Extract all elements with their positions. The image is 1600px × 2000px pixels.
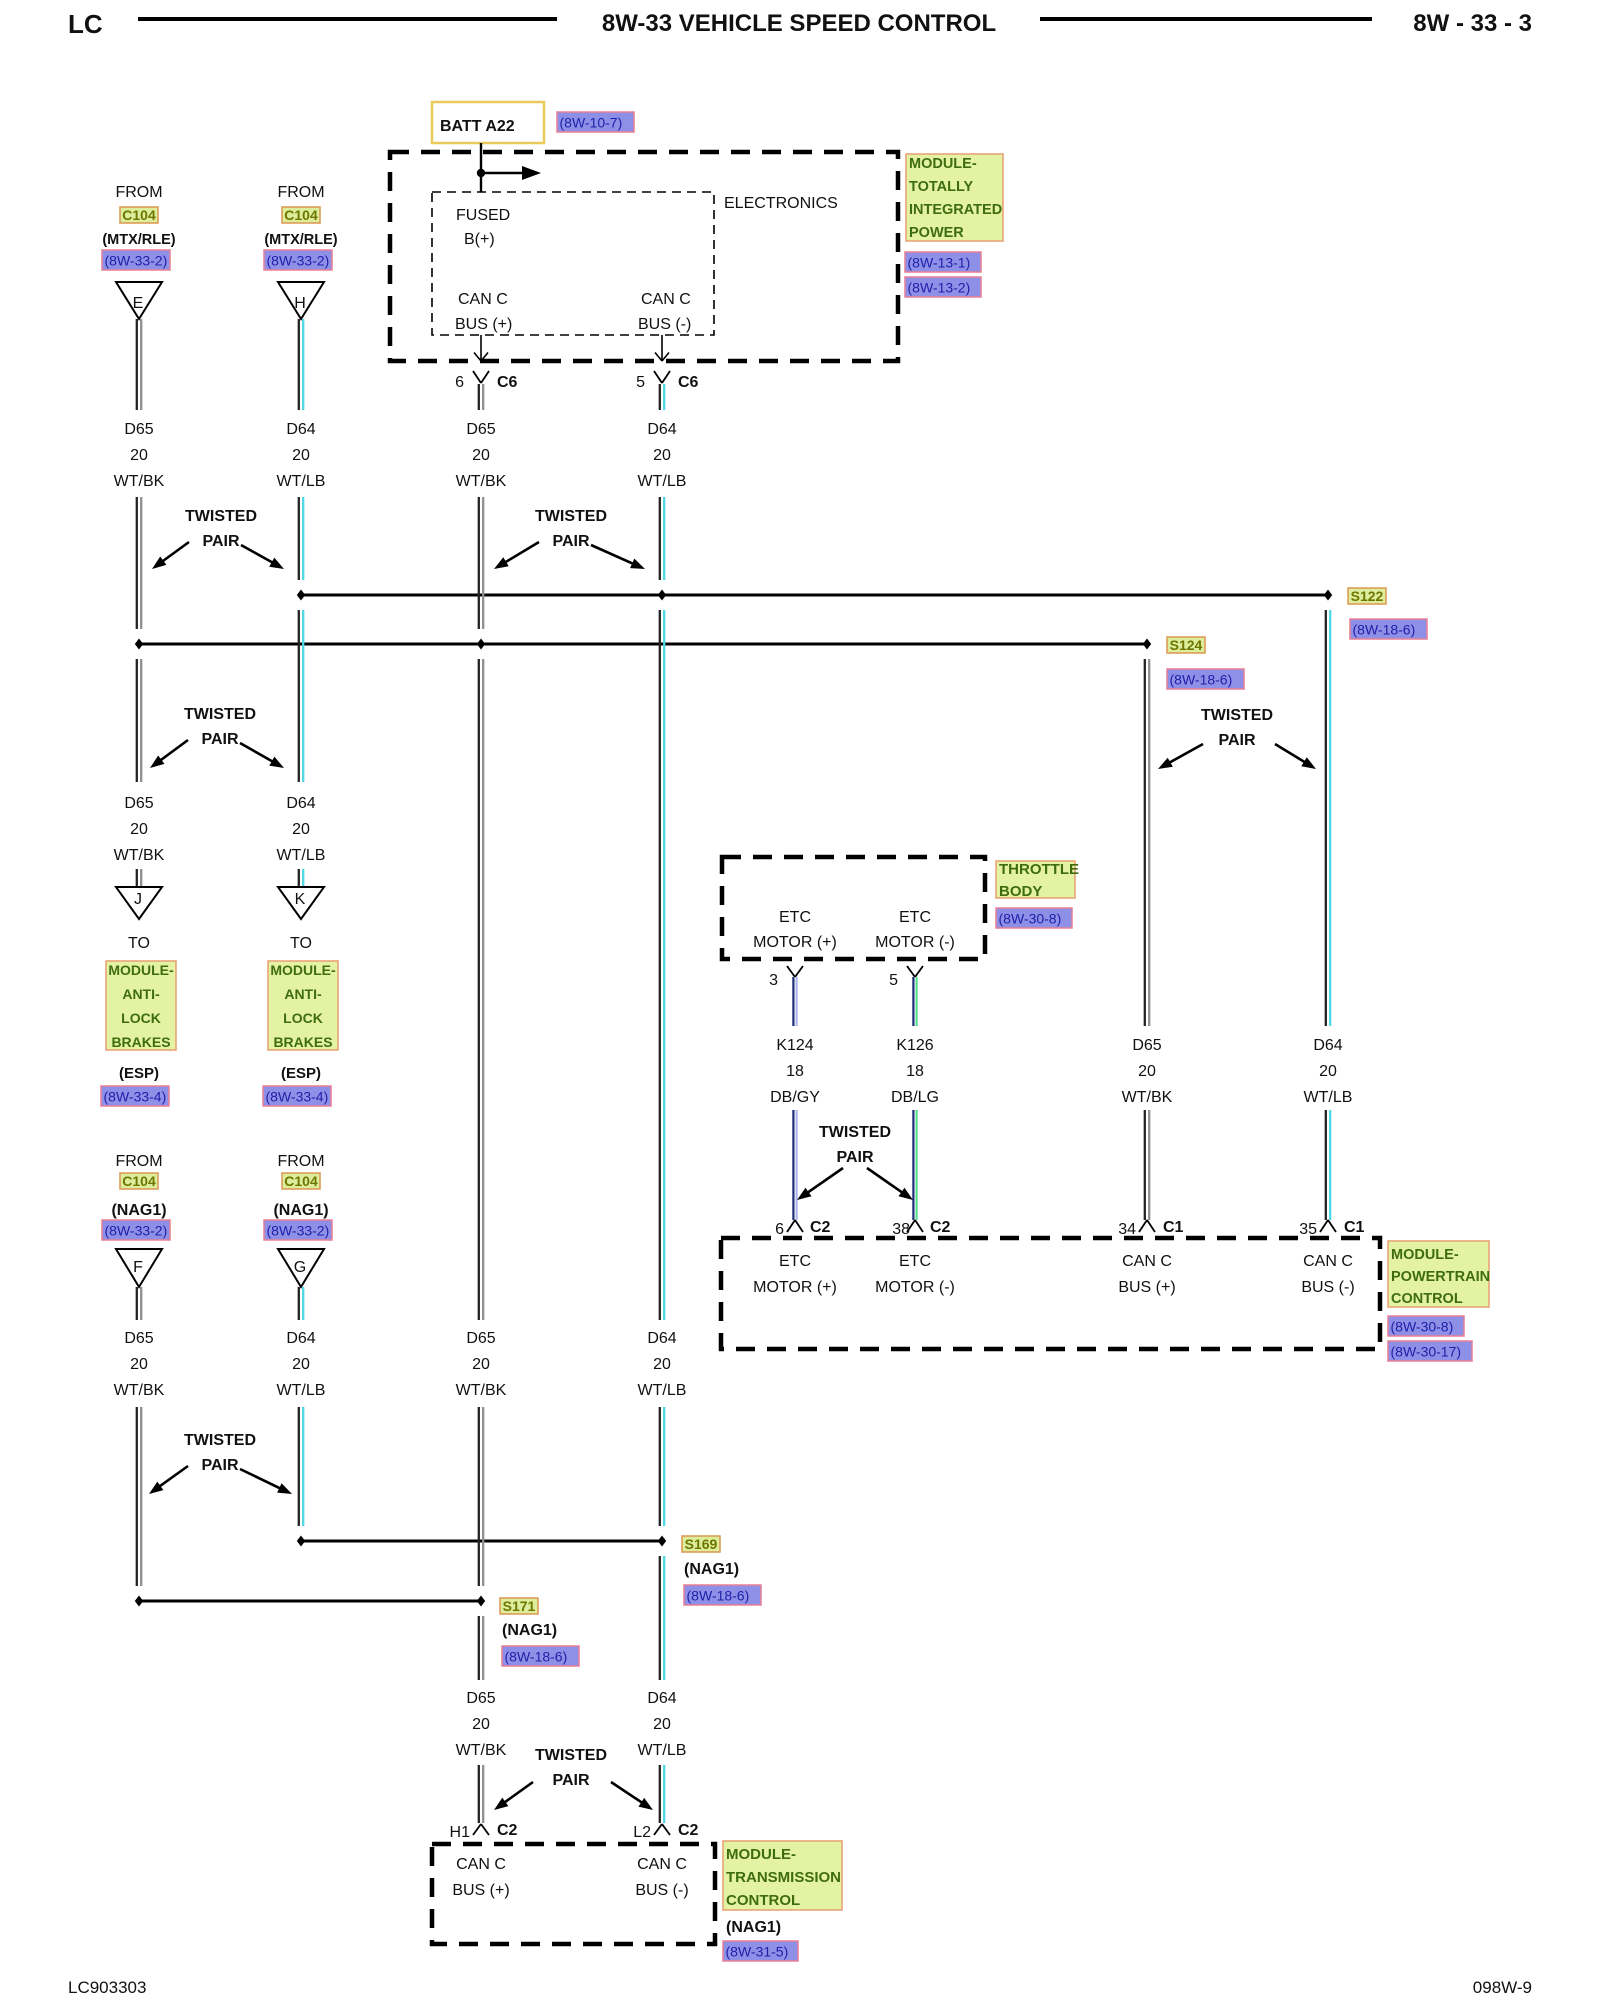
bus line S169 net <box>301 1540 662 1543</box>
svg-text:INTEGRATED: INTEGRATED <box>909 202 1002 218</box>
connector C6 pin 5 <box>654 371 662 383</box>
wire D64 col8 <box>1325 610 1327 1026</box>
svg-text:FROM: FROM <box>115 184 162 201</box>
junction S122 col2 <box>297 590 305 601</box>
wire D65 col3 to TCM <box>478 1765 480 1823</box>
svg-text:C104: C104 <box>284 207 318 223</box>
svg-text:S124: S124 <box>1170 637 1203 653</box>
svg-text:BUS (+): BUS (+) <box>455 316 512 333</box>
connector C1 pin 35 <box>1320 1220 1328 1232</box>
svg-text:K124: K124 <box>776 1037 813 1054</box>
svg-text:BRAKES: BRAKES <box>111 1034 170 1050</box>
svg-text:PAIR: PAIR <box>552 533 589 550</box>
svg-text:LC: LC <box>68 9 103 39</box>
svg-text:5: 5 <box>889 972 898 989</box>
svg-text:D65: D65 <box>466 1330 495 1347</box>
svg-text:WT/BK: WT/BK <box>456 473 507 490</box>
svg-text:MOTOR (-): MOTOR (-) <box>875 1279 955 1296</box>
svg-text:BODY: BODY <box>999 883 1042 900</box>
wire D65 col3 to S124 <box>478 497 480 629</box>
svg-text:WT/BK: WT/BK <box>114 1382 165 1399</box>
svg-text:(8W-10-7): (8W-10-7) <box>560 115 623 131</box>
svg-text:(8W-31-5): (8W-31-5) <box>726 1944 789 1960</box>
fuse box BATT A22 <box>432 102 544 143</box>
svg-text:MODULE-: MODULE- <box>270 962 336 978</box>
wire D64 from G <box>298 1287 300 1320</box>
svg-text:34: 34 <box>1118 1221 1136 1238</box>
svg-text:TO: TO <box>290 935 312 952</box>
wire D64 col4 to S169 <box>659 1407 661 1526</box>
module THROTTLE BODY dashed box <box>722 857 985 959</box>
svg-text:POWER: POWER <box>909 225 964 241</box>
wire D64 col4 below S169 <box>659 1556 661 1680</box>
wire D64 col2 to K <box>298 869 300 891</box>
svg-text:TWISTED: TWISTED <box>535 1747 607 1764</box>
svg-text:20: 20 <box>472 1356 490 1373</box>
svg-text:C2: C2 <box>930 1219 951 1236</box>
junction S122 col4 <box>658 590 666 601</box>
connector triangle K <box>278 887 324 919</box>
svg-text:MOTOR (+): MOTOR (+) <box>753 934 837 951</box>
svg-text:(8W-18-6): (8W-18-6) <box>1353 622 1416 638</box>
svg-text:D64: D64 <box>647 421 676 438</box>
wire BATT A22 to FUSED B(+) <box>480 143 482 192</box>
svg-text:D65: D65 <box>1132 1037 1161 1054</box>
svg-text:CAN C: CAN C <box>641 291 691 308</box>
svg-text:S122: S122 <box>1351 588 1384 604</box>
svg-text:MODULE-: MODULE- <box>726 1846 796 1863</box>
svg-text:D64: D64 <box>286 421 315 438</box>
svg-text:MOTOR (+): MOTOR (+) <box>753 1279 837 1296</box>
svg-text:(8W-33-4): (8W-33-4) <box>266 1089 329 1105</box>
module TIPM outer dashed box <box>390 152 898 361</box>
wire D65 from E <box>136 319 138 410</box>
junction dot on BATT feed <box>477 169 485 177</box>
wire D64 col2 to S122 <box>298 497 300 580</box>
connector triangle E <box>116 282 162 319</box>
svg-text:(8W-18-6): (8W-18-6) <box>1170 672 1233 688</box>
svg-text:PAIR: PAIR <box>201 731 238 748</box>
svg-text:G: G <box>294 1259 306 1276</box>
svg-text:C2: C2 <box>810 1219 831 1236</box>
svg-text:8W-33 VEHICLE SPEED CONTROL: 8W-33 VEHICLE SPEED CONTROL <box>602 10 996 37</box>
svg-text:D64: D64 <box>647 1690 676 1707</box>
svg-text:TWISTED: TWISTED <box>535 508 607 525</box>
svg-text:D64: D64 <box>647 1330 676 1347</box>
svg-text:CAN C: CAN C <box>456 1856 506 1873</box>
svg-text:(8W-13-2): (8W-13-2) <box>908 280 971 296</box>
svg-text:(NAG1): (NAG1) <box>684 1561 739 1578</box>
connector C1 pin 34 <box>1139 1220 1147 1232</box>
svg-text:3: 3 <box>769 972 778 989</box>
connector throttle pin 5 <box>907 966 915 977</box>
svg-text:20: 20 <box>130 821 148 838</box>
wire D64 col4 long run <box>659 610 661 1320</box>
svg-text:FROM: FROM <box>277 184 324 201</box>
wire D65 col1 to J <box>136 869 138 891</box>
junction S124 col1 <box>135 639 143 650</box>
bus line S124 net <box>139 643 1147 646</box>
connector C2 pin 6 <box>787 1220 795 1232</box>
svg-text:20: 20 <box>292 1356 310 1373</box>
junction S122 col8 <box>1324 590 1332 601</box>
svg-text:20: 20 <box>292 821 310 838</box>
svg-text:18: 18 <box>786 1063 804 1080</box>
svg-text:ANTI-: ANTI- <box>284 986 322 1002</box>
svg-text:BUS (-): BUS (-) <box>1301 1279 1354 1296</box>
svg-text:B(+): B(+) <box>464 231 495 248</box>
svg-text:K126: K126 <box>896 1037 933 1054</box>
module label THROTTLE BODY <box>996 861 1075 898</box>
module label ANTI-LOCK BRAKES col2 <box>268 961 338 1050</box>
svg-text:D64: D64 <box>1313 1037 1342 1054</box>
wire D65 col1 below S124 <box>136 659 138 782</box>
connector C2 pin 38 <box>907 1220 915 1232</box>
wire K126 lower <box>912 1110 914 1220</box>
svg-text:BUS (+): BUS (+) <box>1118 1279 1175 1296</box>
svg-text:PAIR: PAIR <box>202 533 239 550</box>
junction S124 col3 <box>477 639 485 650</box>
svg-text:(MTX/RLE): (MTX/RLE) <box>102 232 175 248</box>
svg-text:8W - 33 - 3: 8W - 33 - 3 <box>1413 10 1532 37</box>
svg-text:D65: D65 <box>466 421 495 438</box>
svg-text:WT/LB: WT/LB <box>277 1382 326 1399</box>
header rule right <box>1040 17 1372 21</box>
bus line S171 net <box>139 1600 481 1603</box>
svg-text:C2: C2 <box>497 1822 518 1839</box>
svg-text:C1: C1 <box>1163 1219 1184 1236</box>
svg-text:TWISTED: TWISTED <box>1201 707 1273 724</box>
module label MODULE-TOTALLY INTEGRATED POWER <box>906 154 1003 241</box>
svg-text:PAIR: PAIR <box>836 1149 873 1166</box>
svg-text:ANTI-: ANTI- <box>122 986 160 1002</box>
connector triangle J <box>116 887 162 919</box>
svg-text:BUS (-): BUS (-) <box>635 1882 688 1899</box>
connector C2 pin L2 <box>654 1824 662 1835</box>
wire D65 col1 to S171 <box>136 1407 138 1586</box>
svg-text:TO: TO <box>128 935 150 952</box>
svg-text:TOTALLY: TOTALLY <box>909 179 974 195</box>
svg-text:(8W-30-8): (8W-30-8) <box>1391 1319 1454 1335</box>
svg-text:WT/BK: WT/BK <box>456 1382 507 1399</box>
svg-text:BUS (-): BUS (-) <box>638 316 691 333</box>
svg-text:(8W-33-4): (8W-33-4) <box>104 1089 167 1105</box>
svg-text:F: F <box>133 1259 143 1276</box>
splice S124 <box>1167 637 1205 653</box>
svg-text:BATT A22: BATT A22 <box>440 118 515 135</box>
svg-text:CONTROL: CONTROL <box>726 1892 800 1909</box>
connector triangle F <box>116 1249 162 1287</box>
svg-text:(8W-33-2): (8W-33-2) <box>267 1223 330 1239</box>
svg-text:BRAKES: BRAKES <box>273 1034 332 1050</box>
module label MODULE-POWERTRAIN CONTROL <box>1388 1241 1489 1307</box>
svg-text:MODULE-: MODULE- <box>1391 1247 1459 1263</box>
module label ANTI-LOCK BRAKES col1 <box>106 961 176 1050</box>
wire D65 col1 to S124 <box>136 497 138 629</box>
svg-text:(8W-13-1): (8W-13-1) <box>908 255 971 271</box>
svg-text:20: 20 <box>1319 1063 1337 1080</box>
junction S169 col4 <box>658 1536 666 1547</box>
arrow CAN C BUS (+) out <box>480 335 482 361</box>
module TIPM inner dashed box <box>432 192 714 335</box>
svg-text:ETC: ETC <box>779 1253 811 1270</box>
svg-text:(ESP): (ESP) <box>119 1065 159 1082</box>
svg-text:(8W-18-6): (8W-18-6) <box>687 1588 750 1604</box>
svg-text:WT/LB: WT/LB <box>277 473 326 490</box>
svg-text:D64: D64 <box>286 1330 315 1347</box>
svg-text:(8W-33-2): (8W-33-2) <box>105 1223 168 1239</box>
svg-text:5: 5 <box>636 374 645 391</box>
svg-text:S169: S169 <box>685 1536 718 1552</box>
module label MODULE-TRANSMISSION CONTROL <box>723 1841 842 1910</box>
svg-text:THROTTLE: THROTTLE <box>999 861 1079 878</box>
svg-text:20: 20 <box>292 447 310 464</box>
svg-text:TWISTED: TWISTED <box>819 1124 891 1141</box>
splice S171 <box>500 1598 538 1614</box>
svg-text:WT/LB: WT/LB <box>1304 1089 1353 1106</box>
svg-text:WT/BK: WT/BK <box>114 473 165 490</box>
wire D65 col3 long run <box>478 659 480 1320</box>
connector C2 pin H1 <box>473 1824 481 1835</box>
svg-text:J: J <box>134 891 142 908</box>
svg-text:FROM: FROM <box>277 1153 324 1170</box>
svg-text:L2: L2 <box>633 1824 651 1841</box>
wire D64 col2 to S169 <box>298 1407 300 1526</box>
svg-text:CAN C: CAN C <box>637 1856 687 1873</box>
svg-text:38: 38 <box>892 1221 910 1238</box>
svg-text:WT/LB: WT/LB <box>277 847 326 864</box>
svg-text:ELECTRONICS: ELECTRONICS <box>724 195 838 212</box>
connector triangle G <box>278 1249 324 1287</box>
svg-text:ETC: ETC <box>899 909 931 926</box>
svg-text:ETC: ETC <box>779 909 811 926</box>
svg-text:6: 6 <box>775 1221 784 1238</box>
reference label (8W-10-7) <box>557 112 634 132</box>
svg-text:H: H <box>294 295 306 312</box>
svg-text:WT/BK: WT/BK <box>1122 1089 1173 1106</box>
junction S171 col3 <box>477 1596 485 1607</box>
reference label (8W-13-2) <box>905 277 981 297</box>
wire D64 col2 below S122 <box>298 610 300 782</box>
svg-text:PAIR: PAIR <box>201 1457 238 1474</box>
svg-text:TWISTED: TWISTED <box>184 706 256 723</box>
wire K126 upper <box>912 977 914 1026</box>
wire D65 col3 to S171 <box>478 1407 480 1586</box>
svg-text:20: 20 <box>653 447 671 464</box>
svg-text:(8W-30-17): (8W-30-17) <box>1391 1344 1462 1360</box>
svg-text:C2: C2 <box>678 1822 699 1839</box>
wire D64 col4 to S122 <box>659 497 661 580</box>
junction S171 col1 <box>135 1596 143 1607</box>
connector C6 pin 6 <box>473 371 481 383</box>
wire D64 from H <box>298 319 300 410</box>
svg-text:C104: C104 <box>122 207 156 223</box>
svg-text:E: E <box>133 295 144 312</box>
svg-text:D65: D65 <box>466 1690 495 1707</box>
svg-text:WT/BK: WT/BK <box>456 1742 507 1759</box>
svg-text:MODULE-: MODULE- <box>909 156 977 172</box>
svg-text:MODULE-: MODULE- <box>108 962 174 978</box>
wire K124 upper <box>792 977 794 1026</box>
svg-text:(MTX/RLE): (MTX/RLE) <box>264 232 337 248</box>
svg-text:20: 20 <box>653 1716 671 1733</box>
svg-text:DB/GY: DB/GY <box>770 1089 820 1106</box>
svg-text:TWISTED: TWISTED <box>185 508 257 525</box>
svg-text:CONTROL: CONTROL <box>1391 1291 1463 1307</box>
wire D64 col8 to PCM <box>1325 1110 1327 1220</box>
svg-text:LC903303: LC903303 <box>68 1978 146 1997</box>
svg-text:(NAG1): (NAG1) <box>111 1202 166 1219</box>
svg-text:FROM: FROM <box>115 1153 162 1170</box>
svg-text:D65: D65 <box>124 421 153 438</box>
svg-text:C1: C1 <box>1344 1219 1365 1236</box>
svg-text:(ESP): (ESP) <box>281 1065 321 1082</box>
svg-text:D65: D65 <box>124 1330 153 1347</box>
bus line S122 net <box>301 594 1328 597</box>
wire D65 col3 below S171 <box>478 1616 480 1680</box>
svg-text:C104: C104 <box>284 1173 318 1189</box>
splice S169 <box>682 1536 720 1552</box>
svg-text:BUS (+): BUS (+) <box>452 1882 509 1899</box>
arrow BATT feed to right <box>481 172 530 175</box>
svg-text:LOCK: LOCK <box>121 1010 161 1026</box>
svg-text:098W-9: 098W-9 <box>1473 1978 1532 1997</box>
svg-text:DB/LG: DB/LG <box>891 1089 939 1106</box>
wire D65 from F <box>136 1287 138 1320</box>
svg-text:S171: S171 <box>503 1598 536 1614</box>
svg-text:WT/LB: WT/LB <box>638 1742 687 1759</box>
svg-text:CAN C: CAN C <box>458 291 508 308</box>
svg-text:TRANSMISSION: TRANSMISSION <box>726 1869 841 1886</box>
svg-text:PAIR: PAIR <box>552 1772 589 1789</box>
svg-text:(NAG1): (NAG1) <box>273 1202 328 1219</box>
svg-text:FUSED: FUSED <box>456 207 510 224</box>
module TRANSMISSION CONTROL dashed box <box>432 1844 715 1944</box>
svg-text:CAN C: CAN C <box>1303 1253 1353 1270</box>
svg-text:TWISTED: TWISTED <box>184 1432 256 1449</box>
svg-text:POWERTRAIN: POWERTRAIN <box>1391 1269 1490 1285</box>
svg-text:18: 18 <box>906 1063 924 1080</box>
connector throttle pin 3 <box>787 966 795 977</box>
wire K124 lower <box>792 1110 794 1220</box>
svg-text:WT/BK: WT/BK <box>114 847 165 864</box>
svg-text:35: 35 <box>1299 1221 1317 1238</box>
svg-text:PAIR: PAIR <box>1218 732 1255 749</box>
wire D65 col7 <box>1144 659 1146 1026</box>
svg-text:WT/LB: WT/LB <box>638 473 687 490</box>
splice S122 <box>1348 588 1386 604</box>
svg-text:ETC: ETC <box>899 1253 931 1270</box>
svg-text:20: 20 <box>1138 1063 1156 1080</box>
svg-text:MOTOR (-): MOTOR (-) <box>875 934 955 951</box>
svg-text:20: 20 <box>472 1716 490 1733</box>
svg-text:LOCK: LOCK <box>283 1010 323 1026</box>
module POWERTRAIN CONTROL dashed box <box>721 1238 1380 1349</box>
connector triangle H <box>278 282 324 319</box>
svg-text:20: 20 <box>653 1356 671 1373</box>
svg-text:H1: H1 <box>450 1824 471 1841</box>
wire D65 col3 below C6 <box>478 384 480 410</box>
svg-text:(NAG1): (NAG1) <box>502 1622 557 1639</box>
svg-text:20: 20 <box>472 447 490 464</box>
svg-text:C104: C104 <box>122 1173 156 1189</box>
reference label (8W-13-1) <box>905 252 981 272</box>
wire D64 col4 below C6 <box>659 384 661 410</box>
junction S124 col7 <box>1143 639 1151 650</box>
svg-text:C6: C6 <box>497 374 518 391</box>
svg-text:20: 20 <box>130 1356 148 1373</box>
header rule left <box>138 17 557 21</box>
svg-text:(8W-33-2): (8W-33-2) <box>105 253 168 269</box>
svg-text:(8W-30-8): (8W-30-8) <box>999 911 1062 927</box>
svg-text:(8W-33-2): (8W-33-2) <box>267 253 330 269</box>
svg-text:CAN C: CAN C <box>1122 1253 1172 1270</box>
svg-text:K: K <box>295 891 306 908</box>
junction S169 col2 <box>297 1536 305 1547</box>
wire D65 col7 to PCM <box>1144 1110 1146 1220</box>
arrow CAN C BUS (-) out <box>661 335 663 361</box>
svg-text:C6: C6 <box>678 374 699 391</box>
svg-text:D65: D65 <box>124 795 153 812</box>
wire D64 col4 to TCM <box>659 1765 661 1823</box>
svg-text:D64: D64 <box>286 795 315 812</box>
svg-text:(8W-18-6): (8W-18-6) <box>505 1649 568 1665</box>
svg-text:20: 20 <box>130 447 148 464</box>
svg-text:6: 6 <box>455 374 464 391</box>
svg-text:WT/LB: WT/LB <box>638 1382 687 1399</box>
svg-text:(NAG1): (NAG1) <box>726 1919 781 1936</box>
